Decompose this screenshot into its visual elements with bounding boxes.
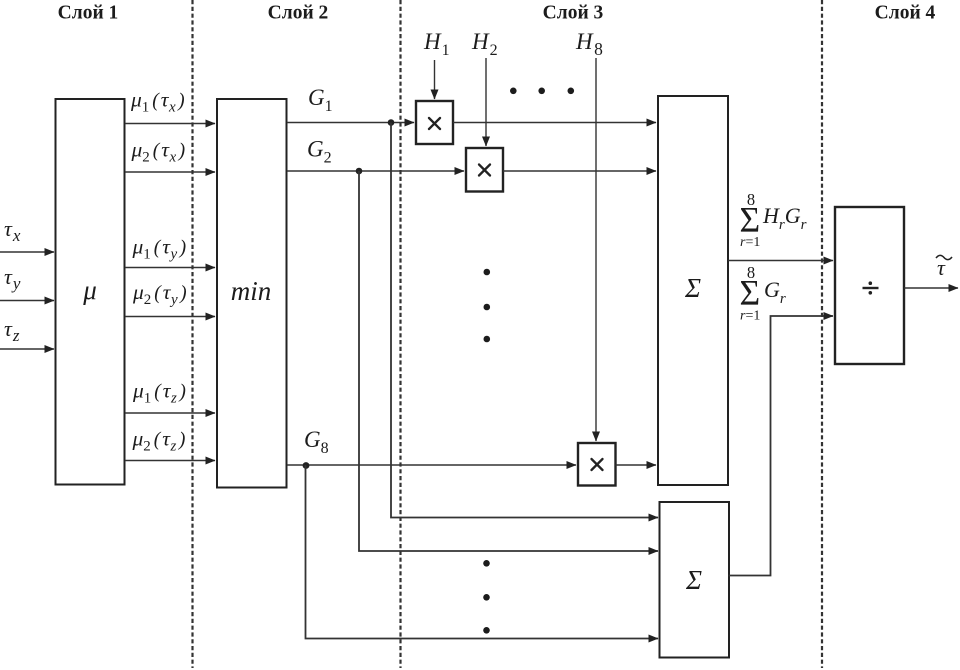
svg-text:min: min (231, 276, 272, 306)
block sigma 1 (layer 3 summer) (658, 96, 728, 485)
wire branch G8 to sigma2 (306, 465, 659, 639)
svg-text:r=1: r=1 (740, 309, 760, 324)
X2 cross (479, 165, 490, 176)
node on G1 (388, 119, 395, 126)
block sigma 2 (lower summer) (660, 502, 730, 658)
svg-text:μ: μ (82, 275, 97, 305)
svg-text:Σ: Σ (685, 565, 702, 595)
multiplier box X3 (578, 443, 616, 486)
node on G2 (356, 168, 363, 175)
X1 cross (429, 118, 440, 129)
wire G2 X2 to sigma1 (503, 170, 656, 172)
wire G1 min to X1 (287, 122, 414, 124)
wire divider output (904, 287, 958, 289)
layer separator dashed line 2 (399, 0, 401, 668)
svg-text:r=1: r=1 (740, 235, 760, 250)
ellipsis dots vertical bottom (483, 560, 490, 634)
wire mu1(tau_x) (125, 123, 215, 125)
wire sigma1 to divider (728, 260, 833, 262)
wire branch G1 to sigma2 (391, 123, 658, 518)
svg-text:Слой 1: Слой 1 (58, 3, 119, 24)
wire input tau_z (0, 348, 54, 350)
svg-text:Σ: Σ (740, 200, 761, 240)
wire input tau_x (0, 251, 54, 253)
wire branch G2 to sigma2 (359, 171, 658, 551)
ellipsis dots horizontal top (510, 88, 574, 95)
wire mu2(tau_z) (125, 460, 215, 462)
multiplier box X2 (466, 148, 503, 192)
wire H8 arrow (595, 58, 597, 441)
svg-text:Слой 2: Слой 2 (268, 3, 329, 24)
wire mu1(tau_y) (125, 267, 215, 269)
node on G8 (303, 462, 310, 469)
ellipsis dots vertical middle (484, 269, 491, 343)
block min (layer 2) (217, 99, 287, 488)
wire mu2(tau_x) (125, 171, 215, 173)
divide sign (863, 281, 879, 294)
wire G1 X1 to sigma1 (453, 122, 656, 124)
block mu (layer 1) (56, 99, 125, 485)
wire G8 min to X3 (287, 464, 576, 466)
layer separator dashed line 1 (191, 0, 193, 668)
wire G8 X3 to sigma1 (616, 464, 657, 466)
wire H2 arrow (485, 58, 487, 146)
multiplier box X1 (416, 101, 453, 144)
wire mu2(tau_y) (125, 316, 215, 318)
svg-text:Слой 4: Слой 4 (875, 3, 936, 24)
svg-text:Σ: Σ (684, 273, 701, 303)
block divider (layer 4) (835, 207, 904, 364)
wire H1 arrow (434, 60, 436, 99)
layer separator dashed line 3 (821, 0, 823, 668)
wire G2 min to X2 (287, 170, 464, 172)
wire input tau_y (0, 300, 54, 302)
wire sigma2 to divider (729, 316, 834, 576)
svg-text:Слой 3: Слой 3 (543, 3, 604, 24)
svg-text:Σ: Σ (740, 273, 761, 313)
X3 cross (592, 459, 603, 470)
wire mu1(tau_z) (125, 412, 215, 414)
tilde over tau (936, 255, 952, 259)
